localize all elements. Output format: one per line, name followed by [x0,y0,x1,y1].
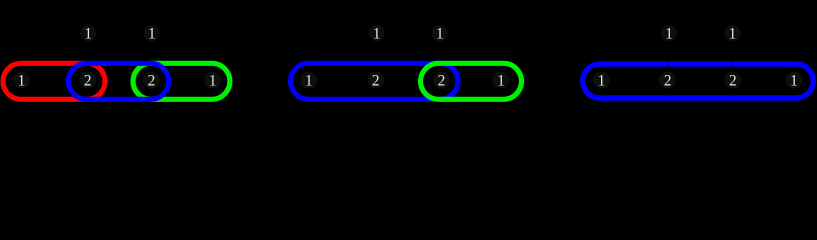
svg-text:1: 1 [729,26,737,43]
svg-text:1: 1 [598,73,606,90]
svg-text:2: 2 [729,73,737,90]
svg-text:2: 2 [438,73,446,90]
node disc 2 [659,72,676,89]
label disc a [661,25,677,41]
green stadium (covers 2,1) [421,63,522,99]
red stadium (covers 1,2) [3,63,105,99]
node disc 3 [724,72,741,89]
pinch notch b (cap-tangent seam) [730,61,733,63]
svg-text:1: 1 [305,73,313,90]
node disc 4 [493,72,510,89]
blue stadium (covers 1,2,2,1) [583,64,814,98]
node disc 2 [367,72,384,89]
svg-text:2: 2 [84,73,92,90]
node disc 2 [79,72,96,89]
svg-text:1: 1 [436,26,444,43]
pinch notch a (cap-tangent seam) [667,61,670,63]
node disc 4 [786,72,803,89]
svg-text:2: 2 [372,73,380,90]
svg-text:1: 1 [497,73,505,90]
svg-text:2: 2 [148,73,156,90]
node disc 1 [593,72,610,89]
blue stadium (covers 1,2,2) [291,63,459,99]
svg-text:1: 1 [665,26,673,43]
label disc b [432,25,448,41]
svg-text:1: 1 [148,26,156,43]
svg-text:1: 1 [209,73,217,90]
svg-text:1: 1 [790,73,798,90]
label disc b [144,25,160,41]
node disc 1 [13,72,30,89]
blue stadium (covers 2,2) [68,63,168,99]
label disc a [80,25,96,41]
node disc 4 [204,72,221,89]
label disc a [369,25,385,41]
svg-text:1: 1 [373,26,381,43]
label disc b [725,25,741,41]
node disc 3 [433,72,450,89]
node disc 1 [300,72,317,89]
node disc 3 [143,72,160,89]
green stadium (covers 2,1) [133,63,230,99]
svg-text:2: 2 [664,73,672,90]
svg-text:1: 1 [84,26,92,43]
svg-text:1: 1 [18,73,26,90]
